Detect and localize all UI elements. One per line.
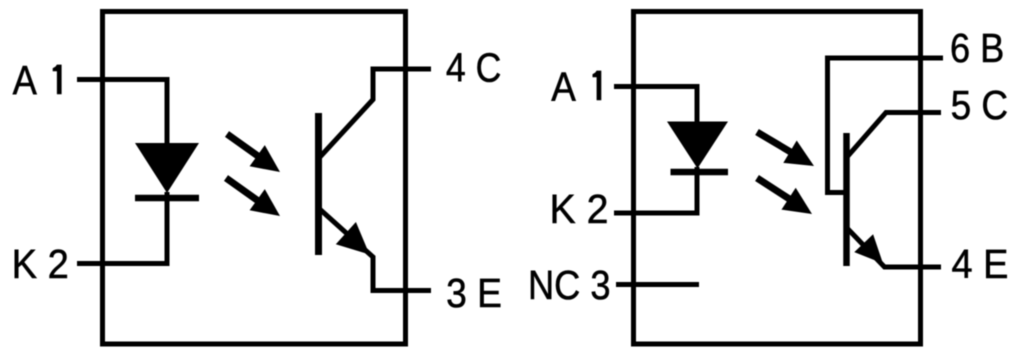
label A 1 (right pin 1) [551, 65, 601, 110]
wire: pin 6 base lead and internal base wire (right) [828, 58, 944, 193]
wire: pin 4 collector lead (left) [371, 67, 432, 72]
svg-text:3 E: 3 E [446, 272, 502, 317]
phototransistor (left): base bar [315, 113, 322, 255]
phototransistor (right): base bar [843, 133, 850, 266]
LED (left optocoupler) [135, 143, 199, 198]
label A 1 (left pin 1) [13, 58, 62, 104]
phototransistor (right): collector stroke and pin 5 lead [847, 113, 941, 158]
light arrow 2 (right) [757, 178, 812, 214]
svg-text:4 E: 4 E [952, 241, 1009, 287]
phototransistor (right): emitter arrowhead [854, 234, 883, 263]
phototransistor (right): emitter stroke and pin 4 lead [846, 227, 941, 267]
svg-text:A: A [551, 65, 576, 110]
LED (right optocoupler) [667, 122, 728, 173]
light arrow 1 (left) [227, 134, 280, 172]
phototransistor (left): emitter stroke to pin 3 [319, 209, 373, 291]
package outline (right optocoupler U2) [634, 12, 921, 345]
wire: pin 2 cathode lead (right) [614, 211, 700, 216]
wire: pin 1 anode lead to LED (left) [77, 80, 167, 147]
package outline (left optocoupler U1) [103, 12, 406, 345]
wire: pin 3 NC stub lead (right) [616, 282, 699, 287]
light arrow 1 (right) [757, 132, 814, 166]
wire: LED cathode to pin 2 (left) [165, 192, 170, 261]
svg-text:K 2: K 2 [550, 186, 609, 232]
wire: pin 1 anode lead to LED (right) [614, 87, 697, 126]
phototransistor (left): collector stroke to pin 4 [319, 69, 373, 158]
svg-text:6 B: 6 B [950, 26, 1004, 72]
wire: LED cathode to pin 2 (right) [695, 167, 700, 211]
svg-text:4 C: 4 C [446, 45, 501, 91]
svg-text:A: A [13, 58, 37, 104]
light arrow 2 (left) [226, 178, 280, 216]
svg-text:5 C: 5 C [951, 83, 1009, 128]
phototransistor (left): emitter arrowhead [336, 222, 370, 255]
svg-text:NC 3: NC 3 [528, 263, 611, 309]
svg-text:K 2: K 2 [12, 242, 69, 288]
wire: pin 2 cathode lead (left) [77, 261, 170, 266]
wire: pin 3 emitter lead (left) [371, 288, 432, 293]
